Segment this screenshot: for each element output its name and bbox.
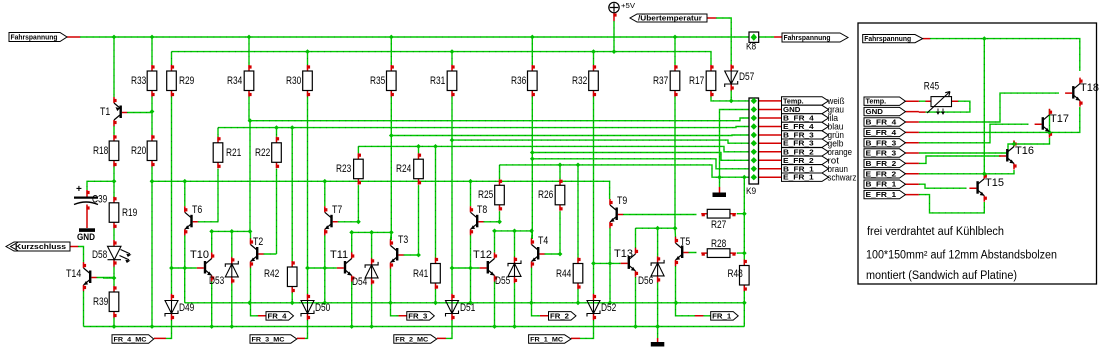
svg-text:T14: T14: [66, 268, 81, 280]
svg-text:T9: T9: [617, 195, 627, 207]
svg-text:B_FR_4: B_FR_4: [783, 116, 814, 123]
svg-text:T18: T18: [1080, 82, 1099, 94]
svg-text:100*150mm² auf 12mm Abstandsbo: 100*150mm² auf 12mm Abstandsbolzen: [866, 250, 1057, 262]
svg-text:D54: D54: [352, 276, 367, 288]
svg-text:B_FR_1: B_FR_1: [783, 166, 814, 173]
svg-text:D57: D57: [739, 71, 754, 83]
svg-text:K9: K9: [746, 186, 756, 196]
svg-text:FR_2_MC: FR_2_MC: [395, 336, 428, 343]
svg-text:FR_1: FR_1: [712, 313, 731, 320]
svg-text:R39: R39: [93, 296, 108, 308]
svg-text:D56: D56: [638, 275, 653, 287]
svg-text:R35: R35: [370, 75, 385, 87]
svg-text:T4: T4: [538, 235, 548, 247]
svg-text:R17: R17: [689, 75, 704, 87]
svg-text:R32: R32: [572, 75, 587, 87]
svg-text:R45: R45: [924, 81, 939, 93]
svg-text:B_FR_2: B_FR_2: [866, 161, 897, 168]
svg-text:E_FR_4: E_FR_4: [866, 130, 897, 137]
svg-text:T2: T2: [253, 236, 263, 248]
svg-text:T3: T3: [398, 234, 408, 246]
svg-text:E_FR_1: E_FR_1: [783, 175, 814, 182]
svg-text:GND: GND: [866, 109, 883, 116]
svg-text:T17: T17: [1050, 113, 1069, 125]
svg-text:FR_4: FR_4: [268, 313, 287, 320]
svg-text:E_FR_2: E_FR_2: [866, 171, 897, 178]
svg-text:T16: T16: [1015, 145, 1034, 157]
svg-text:montiert (Sandwich auf Platine: montiert (Sandwich auf Platine): [866, 270, 1017, 282]
svg-text:R26: R26: [538, 189, 553, 201]
svg-text:frei verdrahtet auf Kühlblech: frei verdrahtet auf Kühlblech: [867, 226, 1004, 238]
svg-text:R22: R22: [255, 147, 270, 159]
svg-text:D51: D51: [460, 302, 475, 314]
svg-text:schwarz: schwarz: [828, 172, 857, 183]
svg-text:B_FR_2: B_FR_2: [783, 149, 814, 156]
svg-text:D58: D58: [92, 249, 107, 261]
svg-text:R19: R19: [122, 207, 137, 219]
svg-text:B_FR_3: B_FR_3: [783, 133, 814, 140]
svg-text:R28: R28: [711, 238, 726, 250]
svg-text:T12: T12: [473, 249, 492, 261]
svg-text:R33: R33: [131, 75, 146, 87]
svg-text:E_FR_1: E_FR_1: [866, 192, 897, 199]
svg-text:/Übertemperatur: /Übertemperatur: [638, 14, 702, 23]
svg-text:R25: R25: [478, 189, 493, 201]
svg-text:R29: R29: [179, 75, 194, 87]
svg-text:R18: R18: [93, 145, 108, 157]
svg-text:R36: R36: [511, 75, 526, 87]
svg-text:R31: R31: [430, 75, 445, 87]
svg-text:FR_3: FR_3: [408, 313, 427, 320]
svg-text:T6: T6: [192, 204, 202, 216]
svg-text:D52: D52: [601, 302, 616, 314]
svg-text:FR_2: FR_2: [550, 313, 569, 320]
svg-text:D55: D55: [495, 275, 510, 287]
svg-text:E_FR_2: E_FR_2: [783, 158, 814, 165]
svg-text:R30: R30: [286, 75, 301, 87]
svg-text:Fahrspannung: Fahrspannung: [864, 34, 911, 43]
svg-text:FR_1_MC: FR_1_MC: [530, 336, 563, 343]
svg-text:R21: R21: [226, 147, 241, 159]
svg-text:T1: T1: [100, 106, 110, 118]
svg-text:GND: GND: [77, 232, 95, 242]
svg-text:D49: D49: [179, 302, 194, 314]
svg-text:GND: GND: [783, 107, 800, 114]
svg-text:R24: R24: [396, 163, 411, 175]
svg-text:T5: T5: [680, 236, 690, 248]
svg-text:D50: D50: [315, 302, 330, 314]
svg-text:B_FR_3: B_FR_3: [866, 140, 897, 147]
svg-text:T13: T13: [614, 248, 633, 260]
svg-text:E_FR_3: E_FR_3: [866, 151, 897, 158]
svg-text:T7: T7: [332, 204, 342, 216]
svg-text:T8: T8: [477, 204, 487, 216]
svg-text:R23: R23: [336, 163, 351, 175]
svg-text:+: +: [76, 184, 82, 195]
svg-text:R37: R37: [653, 75, 668, 87]
svg-text:R20: R20: [131, 145, 146, 157]
svg-text:R44: R44: [556, 268, 571, 280]
svg-text:R41: R41: [413, 268, 428, 280]
svg-text:T11: T11: [330, 249, 348, 261]
svg-text:Temp.: Temp.: [866, 99, 887, 106]
svg-text:E_FR_4: E_FR_4: [783, 124, 814, 131]
svg-text:+5V: +5V: [621, 1, 635, 10]
svg-text:FR_3_MC: FR_3_MC: [252, 336, 285, 343]
svg-text:R27: R27: [711, 219, 726, 231]
svg-text:C39: C39: [92, 194, 107, 206]
svg-text:B_FR_1: B_FR_1: [866, 182, 897, 189]
svg-text:Fahrspannung: Fahrspannung: [11, 33, 58, 42]
svg-text:R42: R42: [264, 268, 279, 280]
svg-text:Kurzschluss: Kurzschluss: [15, 242, 66, 251]
svg-text:Temp.: Temp.: [783, 98, 804, 105]
svg-text:T15: T15: [985, 177, 1004, 189]
svg-text:E_FR_3: E_FR_3: [783, 141, 814, 148]
svg-text:B_FR_4: B_FR_4: [866, 120, 897, 127]
svg-text:K8: K8: [746, 42, 756, 52]
svg-text:T10: T10: [190, 249, 209, 261]
svg-text:R48: R48: [728, 268, 743, 280]
svg-text:D53: D53: [209, 275, 224, 287]
svg-text:FR_4_MC: FR_4_MC: [114, 336, 147, 343]
svg-text:Fahrspannung: Fahrspannung: [784, 33, 831, 42]
svg-text:R34: R34: [227, 75, 242, 87]
